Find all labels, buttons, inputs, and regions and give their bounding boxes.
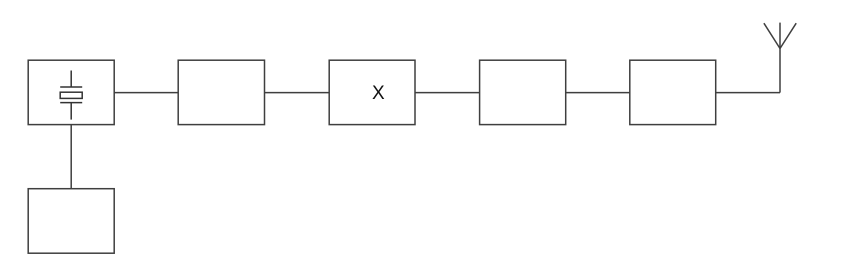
- wire: oscillator to modulator block: [70, 125, 72, 189]
- crystal Y1 top lead: [70, 71, 72, 88]
- block: crystal oscillator stage: [28, 60, 114, 124]
- block: driver amplifier stage: [480, 60, 566, 124]
- wire: power amplifier to antenna: [716, 92, 780, 94]
- antenna centre prong: [779, 23, 781, 49]
- crystal Y1 top plate: [60, 86, 82, 88]
- wire: driver to power amplifier: [566, 92, 630, 94]
- crystal Y1 bottom lead: [70, 103, 72, 120]
- antenna right prong: [780, 23, 796, 48]
- wire: buffer to multiplier: [265, 92, 330, 94]
- crystal Y1 body: [60, 92, 82, 98]
- block: modulator / keying stage: [28, 189, 114, 254]
- antenna mast: [779, 49, 781, 93]
- wire: oscillator to buffer stage: [114, 92, 178, 94]
- block: power amplifier stage: [630, 60, 716, 124]
- wire: multiplier to driver: [415, 92, 480, 94]
- block: buffer amplifier stage: [178, 60, 264, 124]
- antenna left prong: [764, 23, 780, 48]
- crystal Y1 bottom plate: [60, 102, 82, 104]
- svg-text:X: X: [372, 83, 385, 104]
- block: frequency multiplier (X): [329, 60, 415, 124]
